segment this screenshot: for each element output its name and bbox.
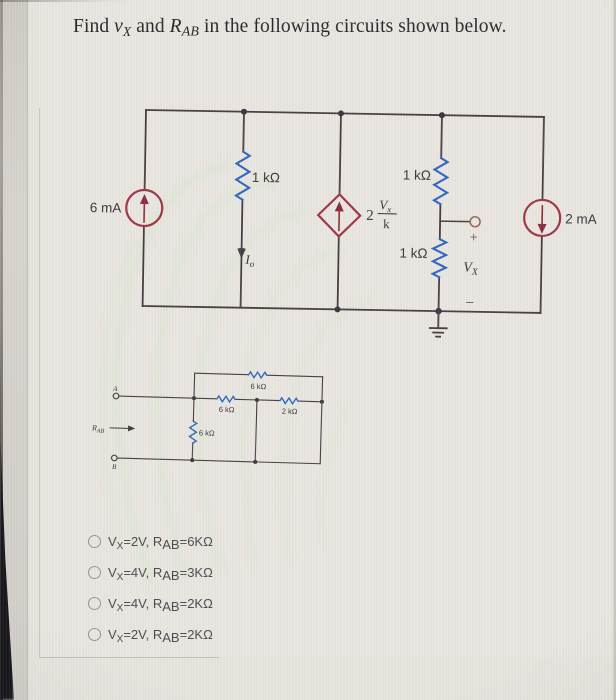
wire mid rail: [194, 398, 322, 402]
wire left up: [193, 373, 196, 398]
wire right vertical: [320, 377, 322, 464]
wire to terminal: [440, 220, 469, 223]
resistor 6 kΩ top: [248, 372, 267, 391]
resistor 6 kΩ mid: [217, 396, 236, 414]
node dot top branch2: [338, 110, 344, 116]
ground: [430, 311, 447, 337]
node dot bottom branch3: [435, 308, 442, 315]
resistor 6 kΩ left vertical: [189, 421, 215, 444]
current arrow Io: [237, 248, 255, 269]
open terminal: [470, 217, 480, 227]
wire top rail: [195, 373, 323, 377]
node dot bottom branch2: [334, 306, 340, 312]
label 1 kΩ: [252, 170, 280, 185]
node dot left mid: [192, 396, 196, 400]
node dot mid: [255, 398, 259, 402]
current source I2 2 mA: [524, 200, 561, 237]
node dot right mid: [320, 400, 324, 404]
resistor R3 1 kΩ lower: [433, 239, 447, 277]
title: [73, 16, 553, 41]
options: [87, 523, 89, 525]
wire branch 3: [439, 115, 442, 311]
label 1 kΩ lower: [399, 245, 427, 260]
label 1 kΩ upper: [403, 167, 431, 182]
wire branch 2: [338, 113, 341, 309]
label +: [470, 231, 478, 246]
resistor R1 1 kΩ: [236, 152, 250, 200]
node dot bottom mid: [253, 460, 257, 464]
label 6 mA: [90, 200, 122, 216]
wire right: [541, 117, 544, 313]
resistor R2 1 kΩ upper: [434, 158, 448, 204]
terminal A: [112, 385, 119, 399]
wire bottom rail: [118, 458, 320, 464]
wire mid vertical: [255, 400, 257, 462]
node dot top branch1: [241, 109, 247, 115]
label Vx: [463, 261, 479, 278]
label 2 mA: [565, 211, 597, 227]
label minus: [465, 295, 474, 310]
current source I1 6 mA: [126, 190, 163, 227]
wire from A: [119, 396, 193, 398]
wire top: [146, 110, 544, 117]
node dot bottom left: [190, 458, 194, 462]
arrow RAB: [110, 425, 135, 432]
terminal B: [111, 455, 117, 471]
dependent source 2Vx/k: [318, 194, 361, 237]
wire bottom: [143, 306, 541, 313]
wire left down: [192, 398, 194, 460]
resistor 2 kΩ mid: [280, 398, 299, 416]
node dot top branch3: [439, 112, 445, 118]
wire branch 1: [241, 112, 244, 308]
label RAB: [91, 423, 105, 434]
label 2 Vx/k: [366, 197, 397, 232]
wire left: [143, 110, 146, 306]
